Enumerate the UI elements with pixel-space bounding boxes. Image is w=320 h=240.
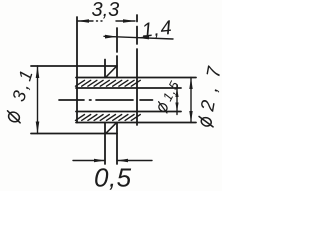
- hatching of section, upper band: [76, 80, 141, 86]
- hatching of section, lower band: [76, 115, 141, 121]
- wire: bore top edge + diameter 1,5 extension: [76, 87, 181, 89]
- dimension line 0,5 left part: [73, 160, 152, 162]
- svg-text:3,3: 3,3: [92, 0, 120, 21]
- wire: flange top edge + diameter 3,1 top extension: [31, 65, 117, 67]
- wire: flange left side bottom + extension line for 0,5: [104, 123, 106, 165]
- arrow left of 3,3: [77, 19, 89, 23]
- wire: part left edge + extension line for 3,3: [76, 17, 78, 123]
- wire: body top edge + diameter 2,7 extension: [76, 77, 196, 79]
- wire: part right edge + extension line for 3,3 / 1,4: [136, 15, 138, 125]
- svg-text:0,5: 0,5: [94, 163, 132, 192]
- label diameter 2,7: [195, 56, 228, 128]
- arrow up of diameter 2,7: [189, 78, 192, 90]
- arrow pointing right at flange edge (1,4): [105, 35, 117, 39]
- arrow down of diameter 3,1: [36, 122, 40, 134]
- wire: bore bottom edge + diameter 1,5 extension: [76, 111, 181, 113]
- label diameter 1,5: [154, 78, 183, 115]
- dimension line diameter 2,7: [190, 78, 192, 123]
- dimension line diameter 1,5: [176, 85, 178, 115]
- dimension line 3,3: [77, 20, 135, 22]
- dimension line diameter 3,1: [37, 66, 39, 134]
- hatching of flange top tab: [106, 67, 116, 77]
- arrow pointing left at part end (1,4): [137, 36, 149, 40]
- arrow pointing right at left flange extension (0,5): [94, 159, 105, 163]
- hatching of flange bottom tab: [106, 123, 116, 133]
- centerline (axis): [59, 99, 153, 101]
- wire: flange bottom edge + diameter 3,1 bottom extension: [31, 133, 117, 135]
- paper background: [0, 0, 222, 191]
- wire: body bottom edge + diameter 2,7 extension: [76, 122, 196, 124]
- dimension line 1,4: [104, 36, 173, 39]
- arrow pointing left at right flange extension (0,5): [117, 159, 128, 163]
- arrow down of diameter 2,7: [189, 111, 192, 123]
- arrow right of 3,3: [123, 19, 135, 23]
- arrow down of diameter 1,5: [175, 103, 178, 112]
- label diameter 3,1: [2, 65, 38, 125]
- arrow up of diameter 1,5: [175, 88, 178, 97]
- arrow up of diameter 3,1: [36, 66, 40, 78]
- wire: flange right side bottom + extension line for 0,5: [116, 123, 118, 165]
- wire: flange right side top + extension line for 1,4: [116, 28, 118, 78]
- svg-text:1,4: 1,4: [141, 17, 174, 42]
- wire: flange left side top: [104, 60, 106, 78]
